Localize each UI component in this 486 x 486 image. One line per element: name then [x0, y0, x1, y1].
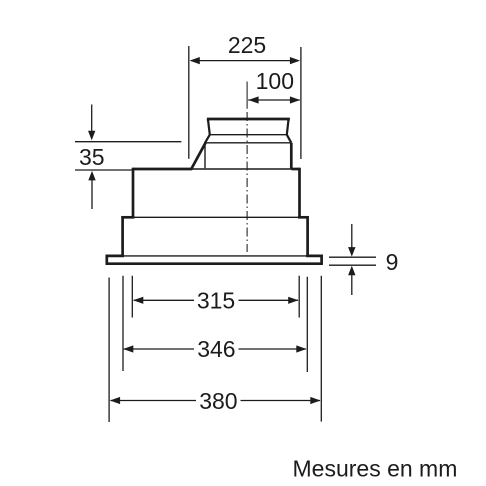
- dimension 315: [132, 276, 299, 318]
- dimension 100: [248, 99, 300, 101]
- duct seam upper: [210, 134, 287, 136]
- duct seam lower: [205, 142, 291, 144]
- dimension 380: [109, 276, 321, 422]
- duct flare: [205, 135, 291, 143]
- svg-text:380: 380: [199, 388, 237, 414]
- svg-text:346: 346: [197, 336, 235, 362]
- svg-text:100: 100: [256, 68, 294, 94]
- dimension 35: [75, 105, 181, 210]
- svg-text:35: 35: [79, 144, 105, 170]
- flange top line: [123, 255, 308, 257]
- hood front slant: [191, 143, 206, 170]
- svg-text:Mesures en mm: Mesures en mm: [293, 456, 458, 482]
- flange body: [106, 255, 323, 264]
- hood step shoulders: [121, 216, 309, 219]
- duct left lower edge: [204, 143, 206, 168]
- flange shoulders: [106, 255, 323, 258]
- duct right lower edge: [290, 143, 293, 169]
- svg-text:225: 225: [228, 32, 266, 58]
- centerline: [246, 82, 248, 253]
- hood upper body sides: [133, 168, 300, 218]
- duct collar top: [208, 119, 289, 135]
- dimension 225: [189, 46, 301, 159]
- hood middle body sides: [123, 216, 308, 256]
- hood step line: [133, 216, 300, 218]
- svg-text:315: 315: [197, 287, 235, 313]
- svg-text:9: 9: [386, 249, 399, 275]
- dimension 9: [329, 224, 376, 295]
- dimension 346: [123, 276, 307, 372]
- hood top edge: [133, 168, 300, 171]
